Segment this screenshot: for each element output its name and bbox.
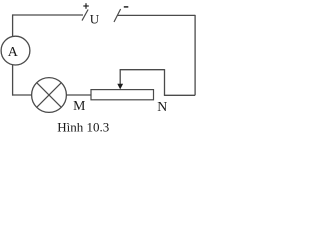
wire bottom-right horizontal (164, 94, 195, 96)
lamp L1 cross diagonals (37, 83, 62, 108)
svg-text:M: M (73, 98, 85, 113)
svg-text:N: N (157, 99, 167, 114)
rheostat wiper arrow (117, 70, 123, 90)
wire top-left horizontal (13, 14, 83, 16)
svg-text:A: A (8, 45, 19, 60)
wire right vertical (194, 15, 196, 95)
battery U left slash terminal (82, 10, 88, 21)
wire wiper horizontal (120, 69, 165, 71)
svg-text:U: U (90, 12, 100, 27)
battery U right slash terminal (114, 9, 121, 22)
battery minus sign (124, 6, 129, 8)
wire top-right horizontal (117, 14, 195, 16)
rheostat R1 body (91, 90, 154, 100)
battery plus sign (83, 3, 89, 9)
svg-text:Hình 10.3: Hình 10.3 (57, 119, 109, 134)
wire mid vertical down (164, 69, 166, 95)
lamp L1 circle (32, 78, 67, 113)
ammeter A1 circle (1, 36, 30, 65)
wire bottom-left horizontal to lamp (12, 94, 32, 96)
wire left vertical upper (12, 14, 14, 36)
wire left vertical lower (12, 65, 14, 96)
wire lamp to rheostat M (66, 94, 91, 96)
